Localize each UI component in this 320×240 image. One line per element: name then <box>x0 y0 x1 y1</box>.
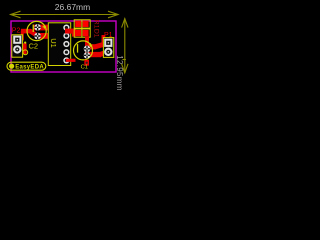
pad P1.2 (round) <box>104 48 112 56</box>
wire trace T1: C2 pad1 to U1 pin1 <box>33 25 66 31</box>
svg-text:R1: R1 <box>93 20 100 29</box>
connector P2 <box>12 35 23 57</box>
plus marker <box>43 25 47 29</box>
polarity stripe <box>33 25 34 33</box>
IC U1 <box>48 23 70 66</box>
svg-text:D1: D1 <box>93 29 100 38</box>
pad R1.1 <box>75 21 81 27</box>
svg-text:C1: C1 <box>81 65 88 71</box>
dimension line vertical <box>122 19 128 73</box>
board outline <box>11 21 116 72</box>
pad C1.2 <box>84 52 91 59</box>
wire stub P2 pad2 to node <box>21 43 27 54</box>
wire U1 pin1 to D1 anode <box>65 29 76 37</box>
plus marker <box>89 43 93 47</box>
pad D1.2 <box>83 30 89 36</box>
pad C1.1 <box>84 46 91 53</box>
pad R1.2 <box>83 21 89 27</box>
pad C2.2 <box>34 33 41 40</box>
polarity stripe <box>77 44 78 53</box>
pad D1.1 <box>75 30 81 36</box>
capacitor C1 <box>74 41 93 60</box>
wire trace T2: C2 pad2 to U1 pin2 <box>35 33 67 39</box>
wire C1 pad2 to P1 pin2 <box>85 52 101 57</box>
pad C2.1 <box>34 24 41 31</box>
pad U1.1 <box>63 25 69 31</box>
svg-text:C2: C2 <box>29 41 39 50</box>
pad U1.2 <box>63 33 69 39</box>
svg-text:P2: P2 <box>12 27 21 34</box>
wire P2 pad1 riser <box>21 31 38 41</box>
wire stub U1 pin5 <box>66 59 76 62</box>
connector P1 <box>103 38 113 58</box>
pad P2.1 (square) <box>13 36 21 44</box>
via pad below C1 <box>84 60 89 66</box>
pad U1.3 <box>63 41 69 47</box>
dimension line horizontal <box>11 11 118 18</box>
pad U1.5 <box>63 57 69 63</box>
EasyEDA logo silkscreen <box>7 62 46 70</box>
svg-text:EasyEDA: EasyEDA <box>15 64 44 70</box>
svg-text:U1: U1 <box>49 38 58 48</box>
wire stub above P1 pin1 <box>102 35 106 43</box>
pad U1.4 <box>63 49 69 55</box>
pad P1.1 (square) <box>104 39 112 47</box>
wire D1 cathode down to C1 pad1 <box>85 36 89 47</box>
svg-text:26.67mm: 26.67mm <box>55 2 90 12</box>
node marker silk near P2 <box>23 42 28 55</box>
diode D1 <box>74 29 90 37</box>
wire C1 pad1 to P1 pin1 <box>85 44 96 49</box>
svg-text:P1: P1 <box>104 32 113 39</box>
pad P2.2 (round) <box>13 45 21 53</box>
resistor R1 <box>74 20 90 28</box>
capacitor C2 <box>27 21 46 40</box>
